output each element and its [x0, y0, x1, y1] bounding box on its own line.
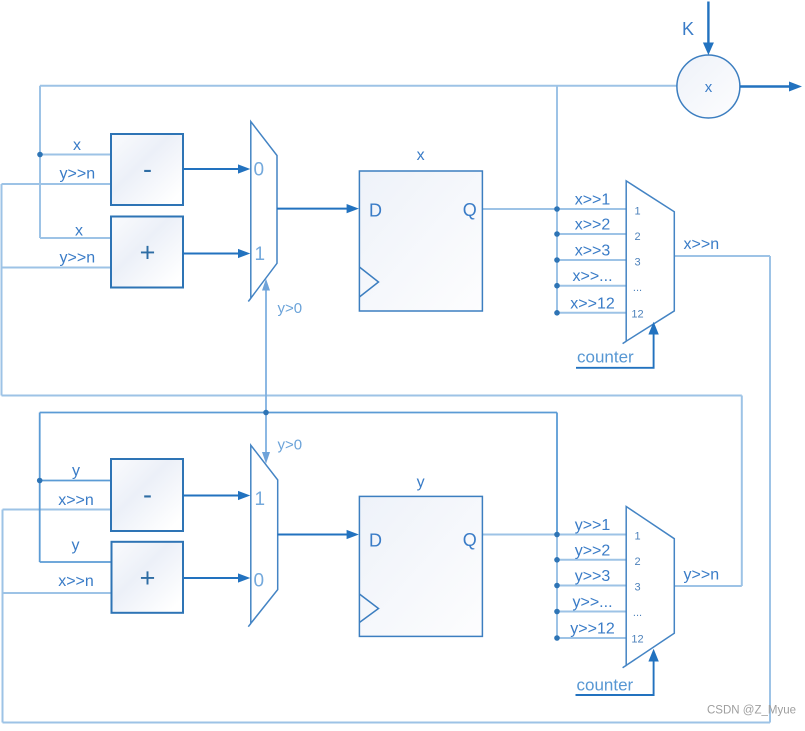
svg-text:0: 0	[254, 160, 265, 181]
svg-text:1: 1	[255, 489, 266, 510]
svg-text:x>>...: x>>...	[572, 268, 612, 285]
junction dot at x/subtractor branch	[37, 152, 43, 158]
wire: y feedback left vertical	[39, 413, 41, 563]
wire: x>>n bottom horizontal	[3, 722, 771, 724]
svg-text:y>>...: y>>...	[572, 594, 612, 611]
mux M1 (x path select)	[248, 122, 277, 302]
wire: x>>n into adder2 stub	[3, 592, 113, 594]
mux M2 (x shift select)	[623, 181, 675, 344]
svg-text:y: y	[417, 474, 425, 491]
svg-text:K: K	[682, 19, 694, 39]
node: y>0 select line bottom	[262, 413, 270, 464]
svg-text:x>>1: x>>1	[575, 192, 611, 209]
svg-text:y>>1: y>>1	[575, 517, 611, 534]
svg-text:counter: counter	[577, 676, 634, 695]
wire: y>>1 stub	[557, 534, 626, 536]
svg-text:3: 3	[634, 582, 640, 594]
arrow: mux3 to D flip-flop y	[278, 530, 359, 539]
wire: y>>12 stub	[557, 637, 626, 639]
multiplier U4 (x K)	[677, 55, 740, 118]
svg-text:1: 1	[634, 206, 640, 218]
wire: y>>n mux output	[674, 585, 742, 587]
adder U6 "+" (y path)	[112, 542, 184, 613]
arrow: subtractor1 to mux input 0	[183, 164, 250, 173]
svg-text:Q: Q	[463, 200, 477, 220]
svg-text:3: 3	[634, 257, 640, 269]
arrow: subtractor2 to mux input 1	[183, 491, 250, 500]
wire: y>>n into subtractor stub	[2, 183, 112, 185]
svg-text:x: x	[73, 137, 81, 154]
wire: y register vertical distribution	[556, 535, 558, 639]
svg-text:x>>12: x>>12	[570, 295, 615, 312]
svg-text:0: 0	[254, 571, 265, 592]
wire: x>>3 stub	[557, 259, 626, 261]
wire: y>>2 stub	[557, 559, 626, 561]
svg-text:y: y	[72, 463, 80, 480]
arrow: adder2 to mux input 0	[183, 573, 250, 582]
svg-text:x: x	[705, 79, 713, 96]
svg-text:x>>3: x>>3	[575, 243, 611, 260]
svg-text:12: 12	[631, 309, 643, 321]
svg-text:y>>3: y>>3	[575, 568, 611, 585]
wire: x>>... stub	[557, 285, 626, 287]
svg-text:x>>n: x>>n	[58, 492, 94, 509]
wire: y feedback right vertical	[556, 413, 558, 535]
arrow: K input	[703, 2, 714, 56]
svg-text:D: D	[369, 531, 382, 551]
svg-text:y>0: y>0	[278, 300, 303, 317]
svg-text:...: ...	[633, 282, 642, 294]
svg-text:y>>n: y>>n	[60, 250, 96, 267]
svg-text:x: x	[417, 147, 425, 164]
adder U2 "+" (x path)	[111, 217, 183, 288]
wire: x>>1 stub	[557, 208, 626, 210]
wire: Q output x register	[482, 208, 557, 210]
junction dots on y distribution	[554, 532, 560, 538]
svg-text:...: ...	[633, 607, 642, 619]
svg-text:y>>2: y>>2	[575, 542, 611, 559]
wire: x>>n right vertical	[769, 256, 771, 723]
svg-text:-: -	[143, 154, 152, 184]
mux M4 (y shift select)	[623, 507, 675, 668]
svg-text:y>0: y>0	[278, 437, 303, 454]
D flip-flop U7 register y	[359, 496, 482, 636]
wire: y feedback horizontal	[40, 412, 557, 414]
counter (bottom) with arrow into mux M4	[576, 649, 659, 695]
wire: x>>n left vertical	[2, 510, 4, 723]
svg-text:counter: counter	[577, 348, 634, 367]
wire: x into adder stub	[40, 237, 111, 239]
svg-text:1: 1	[634, 531, 640, 543]
mux M3 (y path select)	[248, 445, 277, 627]
wire: x>>2 stub	[557, 233, 626, 235]
svg-text:2: 2	[634, 231, 640, 243]
wire: y into subtractor2 stub	[40, 480, 111, 482]
svg-text:+: +	[140, 238, 156, 268]
svg-text:2: 2	[634, 556, 640, 568]
svg-text:Q: Q	[463, 530, 477, 550]
svg-text:x>>n: x>>n	[684, 236, 720, 253]
svg-text:x: x	[75, 223, 83, 240]
svg-text:y: y	[72, 537, 80, 554]
junction dot y>0 tap	[263, 410, 269, 416]
svg-text:1: 1	[255, 244, 266, 265]
svg-text:CSDN @Z_Myue: CSDN @Z_Myue	[707, 705, 796, 717]
svg-text:D: D	[369, 201, 382, 221]
counter (top) with arrow into mux M2	[576, 322, 659, 368]
subtractor U1 "-" (x path)	[111, 134, 183, 205]
arrow: mux1 to D flip-flop x	[277, 204, 359, 213]
wire: x into subtractor stub	[40, 154, 111, 156]
wire: y into adder2 stub	[40, 561, 112, 563]
svg-text:x>>n: x>>n	[58, 573, 94, 590]
junction dots on x distribution	[554, 206, 560, 212]
svg-text:12: 12	[631, 634, 643, 646]
wire: y>>n feedback right vertical	[741, 396, 743, 587]
junction dot y branch	[37, 478, 43, 484]
wire: y>>n left vertical	[1, 184, 3, 396]
wire: x>>12 stub	[557, 312, 626, 314]
wire: x register vertical distribution	[556, 86, 558, 313]
svg-text:y>>n: y>>n	[684, 567, 720, 584]
subtractor U5 "-" (y path)	[111, 459, 183, 531]
arrow: adder1 to mux input 1	[183, 249, 250, 258]
wire: x feedback top horizontal	[40, 85, 677, 87]
wire: x feedback left vertical	[39, 86, 41, 238]
wire: y>>n feedback horizontal	[2, 395, 742, 397]
svg-text:+: +	[140, 563, 156, 593]
wire: x>>n into subtractor2 stub	[3, 509, 112, 511]
arrow: multiplier output	[740, 82, 802, 92]
D flip-flop U3 register x	[359, 171, 482, 311]
wire: x>>n mux output	[674, 255, 770, 257]
wire: y>>n into adder stub	[2, 267, 112, 269]
svg-text:-: -	[143, 480, 152, 510]
wire: y>>... stub	[557, 611, 626, 613]
wire: Q output y register	[482, 534, 557, 536]
svg-text:x>>2: x>>2	[575, 217, 611, 234]
svg-text:y>>12: y>>12	[570, 621, 615, 638]
node: y>0 select line top	[262, 279, 270, 413]
svg-text:y>>n: y>>n	[60, 166, 96, 183]
wire: y>>3 stub	[557, 585, 626, 587]
